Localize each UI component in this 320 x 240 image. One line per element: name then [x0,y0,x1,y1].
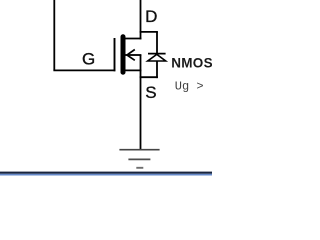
wire diode anode branch horizontal [140,76,158,78]
wire drain horizontal [125,38,142,40]
wire diode top lead vertical [156,32,158,54]
transistor Q1 channel bar [121,37,126,72]
ground bar 3 [136,167,143,169]
blue separator line dark band [0,172,212,174]
blue separator line light band [0,174,212,176]
wire diode bottom lead vertical [156,61,158,78]
svg-text:S: S [145,83,156,102]
transistor Q1 gate plate [114,38,116,71]
svg-text:NMOS: NMOS [171,56,212,71]
wire source lead vertical [140,55,142,150]
wire drain lead vertical [140,0,142,39]
diode D1 triangle [148,54,166,61]
wire source horizontal [125,69,142,71]
svg-text:G: G [82,50,95,69]
svg-text:D: D [145,7,157,26]
transistor Q1 arrowhead [127,50,135,61]
ground bar 1 [119,149,159,151]
ground bar 2 [128,158,150,160]
diode D1 cathode bar [148,53,166,55]
svg-text:Ug >: Ug > [175,80,204,94]
wire gate horizontal [53,69,115,71]
transistor Q1 arrow line [126,54,142,56]
wire diode top branch horizontal [140,31,158,33]
wire gate feed vertical [53,0,55,70]
